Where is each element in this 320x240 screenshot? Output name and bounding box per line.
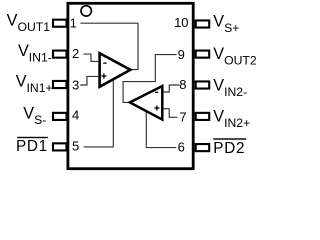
svg-text:5: 5 (72, 139, 79, 154)
pin 10 stub (196, 20, 210, 27)
pin 1 indicator circle (81, 6, 91, 16)
wire pin6 PD2 to op-amp B bottom (146, 111, 176, 148)
svg-text:4: 4 (72, 107, 79, 122)
svg-text:1: 1 (70, 15, 77, 30)
wire pin7 to op-amp B non-inverting input (164, 109, 178, 118)
pin 2 stub (53, 51, 67, 58)
op-amp A triangle (100, 53, 131, 87)
svg-text:3: 3 (72, 77, 79, 92)
IC package body U1 (68, 3, 193, 168)
pin 7 stub (196, 113, 210, 120)
pin 4 stub (53, 113, 67, 120)
pin 6 stub (196, 144, 210, 151)
svg-text:PD2: PD2 (213, 140, 245, 157)
pin 3 stub (53, 81, 67, 88)
op-amp A plus sign (101, 75, 106, 76)
wire pin1 to op-amp A output (81, 23, 139, 69)
PD1 overline (17, 137, 48, 138)
wire pin9 to op-amp B output (123, 55, 176, 103)
svg-text:7: 7 (179, 109, 186, 124)
svg-text:6: 6 (178, 139, 185, 154)
svg-text:10: 10 (174, 15, 188, 30)
wire pin2 to op-amp A inverting input (83, 54, 98, 61)
svg-text:9: 9 (178, 47, 185, 62)
pin 5 stub (53, 143, 67, 150)
op-amp A minus sign (103, 63, 106, 64)
op-amp B minus sign (155, 92, 158, 93)
pin 9 stub (196, 51, 210, 58)
op-amp B plus sign (154, 107, 159, 108)
svg-text:PD1: PD1 (16, 138, 48, 155)
pin 8 stub (196, 81, 210, 88)
svg-text:8: 8 (179, 77, 186, 92)
wire pin8 to op-amp B inverting input (164, 85, 180, 92)
wire pin3 to op-amp A non-inverting input (80, 76, 98, 85)
svg-text:2: 2 (72, 46, 79, 61)
PD2 overline (213, 138, 246, 139)
pin 1 stub (53, 20, 67, 27)
op-amp B triangle (points left) (130, 86, 163, 120)
wire pin5 PD1 to op-amp A bottom (84, 79, 114, 146)
